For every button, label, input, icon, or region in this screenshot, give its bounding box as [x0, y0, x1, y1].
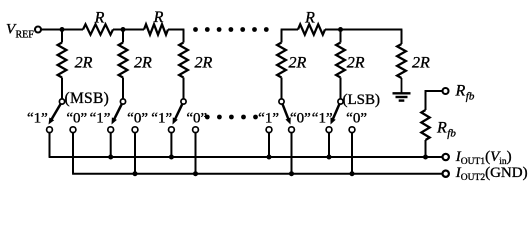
- junction bit5 contact1 on IOUT1 bus: [327, 155, 332, 160]
- wire resistor to switch pivot bit4: [281, 78, 283, 99]
- wire terminating resistor to ground: [401, 78, 403, 93]
- svg-text:“1”: “1”: [27, 111, 48, 127]
- wire contact 1 bit5 to IOUT1 bus: [328, 133, 330, 157]
- switch pivot bit1: [59, 99, 64, 104]
- wire rail corner to terminating resistor: [401, 30, 403, 45]
- terminal Rfb: [443, 88, 449, 94]
- wire rail to resistor 2R bit4: [281, 30, 283, 43]
- wire R3 to node E: [325, 29, 402, 31]
- wire R2 to corner C: [168, 29, 184, 31]
- svg-text:“1”: “1”: [151, 111, 172, 127]
- junction Rfb on IOUT1 bus: [423, 155, 428, 160]
- resistor R3: [298, 24, 325, 34]
- wire contact 0 bit4 to IOUT2 bus: [291, 133, 293, 174]
- svg-text:“0”: “0”: [127, 111, 148, 127]
- svg-text:REF: REF: [16, 30, 35, 41]
- switch lever bit1: [49, 104, 61, 124]
- svg-text:(MSB): (MSB): [65, 90, 110, 107]
- svg-text:R: R: [436, 120, 447, 137]
- wire contact 1 bit1 to IOUT1 bus: [49, 133, 51, 157]
- junction bit2 contact0 on IOUT2 bus: [133, 171, 138, 176]
- junction bit5 contact0 on IOUT2 bus: [350, 171, 355, 176]
- svg-text:R: R: [304, 10, 315, 27]
- svg-text:2R: 2R: [134, 55, 152, 72]
- wire resistor to switch pivot bit5: [340, 78, 342, 99]
- wire resistor to switch pivot bit2: [122, 78, 124, 99]
- junction bit3 contact0 on IOUT2 bus: [193, 171, 198, 176]
- switch lever bit2: [112, 104, 122, 124]
- wire contact 1 bit3 to IOUT1 bus: [170, 133, 172, 157]
- wire resistor to switch pivot bit3: [183, 78, 185, 99]
- wire contact 1 bit4 to IOUT1 bus: [268, 133, 270, 157]
- resistor 2R terminating: [397, 44, 406, 78]
- wire contact 0 bit2 to IOUT2 bus: [134, 133, 136, 174]
- switch contact bit4 position 0: [289, 127, 295, 133]
- junction bit3 contact1 on IOUT1 bus: [169, 155, 174, 160]
- wire contact 0 bit5 to IOUT2 bus: [351, 133, 353, 174]
- svg-text:R: R: [455, 83, 466, 100]
- svg-text:“1”: “1”: [312, 111, 333, 127]
- svg-text:R: R: [153, 9, 164, 26]
- svg-text:2R: 2R: [289, 55, 307, 72]
- switch contact bit1 position 0: [70, 127, 76, 133]
- junction node A: [60, 27, 65, 32]
- junction bit4 contact1 on IOUT1 bus: [267, 155, 272, 160]
- switch lever bit4: [283, 104, 291, 124]
- switch contact bit3 position 1: [169, 127, 175, 133]
- wire contact 1 bit2 to IOUT1 bus: [110, 133, 112, 157]
- svg-text:“1”: “1”: [90, 111, 111, 127]
- svg-text:fb: fb: [447, 128, 456, 140]
- terminal VREF: [35, 27, 41, 33]
- ellipsis top rail dots: [193, 27, 269, 32]
- switch lever bit5: [331, 104, 340, 124]
- switch contact bit4 position 1: [266, 127, 272, 133]
- resistor 2R bit5 (LSB): [336, 43, 345, 78]
- switch contact bit5 position 1: [326, 127, 332, 133]
- switch pivot bit5: [338, 99, 343, 104]
- svg-text:2R: 2R: [195, 55, 213, 72]
- switch contact bit3 position 0: [193, 127, 199, 133]
- resistor R2: [144, 24, 168, 34]
- wire contact 0 bit3 to IOUT2 bus: [195, 133, 197, 174]
- switch contact bit2 position 1: [108, 127, 114, 133]
- wire IOUT1 bus: [49, 156, 443, 158]
- resistor 2R bit1 (MSB): [58, 43, 67, 78]
- svg-text:“0”: “0”: [346, 111, 367, 127]
- wire Rfb terminal to resistor: [426, 91, 443, 110]
- svg-text:“0”: “0”: [290, 111, 311, 127]
- wire R1 to node B: [113, 29, 144, 31]
- wire contact 0 bit1 to IOUT2 bus: [72, 133, 74, 174]
- svg-text:2R: 2R: [347, 55, 365, 72]
- svg-text:“0”: “0”: [66, 111, 87, 127]
- switch lever bit3: [173, 104, 183, 124]
- switch pivot bit3: [181, 99, 186, 104]
- resistor R1: [83, 24, 113, 34]
- ground: [393, 93, 411, 100]
- switch contact bit2 position 0: [132, 127, 138, 133]
- resistor 2R bit4: [277, 43, 286, 78]
- svg-text:“1”: “1”: [258, 111, 279, 127]
- svg-text:2R: 2R: [412, 55, 430, 72]
- svg-text:2R: 2R: [75, 55, 93, 72]
- resistor 2R bit2: [119, 43, 128, 78]
- wire rail to resistor 2R bit5 (LSB): [340, 30, 342, 43]
- switch contact bit5 position 0: [349, 127, 355, 133]
- switch contact bit1 position 1: [47, 127, 53, 133]
- resistor Rfb: [421, 110, 429, 140]
- svg-text:fb: fb: [466, 91, 475, 103]
- terminal IOUT2: [443, 171, 449, 177]
- switch pivot bit4: [279, 99, 284, 104]
- wire rail to resistor 2R bit1 (MSB): [61, 30, 63, 43]
- junction bit2 contact1 on IOUT1 bus: [108, 155, 113, 160]
- svg-text:(LSB): (LSB): [343, 92, 381, 108]
- wire corner D to R3: [281, 29, 298, 31]
- wire VREF to node A: [41, 29, 83, 31]
- wire rail to resistor 2R bit2: [122, 30, 124, 43]
- svg-text:R: R: [94, 9, 105, 26]
- resistor 2R bit3: [179, 43, 188, 78]
- wire resistor to switch pivot bit1: [61, 78, 63, 99]
- wire Rfb resistor to IOUT1 bus: [425, 140, 427, 157]
- svg-text:“0”: “0”: [186, 111, 207, 127]
- terminal IOUT1: [443, 154, 449, 160]
- ellipsis switch row dots: [205, 115, 258, 120]
- wire IOUT2 bus: [72, 173, 443, 175]
- junction node B: [121, 27, 126, 32]
- switch pivot bit2: [120, 99, 125, 104]
- junction node E: [338, 27, 343, 32]
- wire rail to resistor 2R bit3: [183, 30, 185, 43]
- junction bit4 contact0 on IOUT2 bus: [289, 171, 294, 176]
